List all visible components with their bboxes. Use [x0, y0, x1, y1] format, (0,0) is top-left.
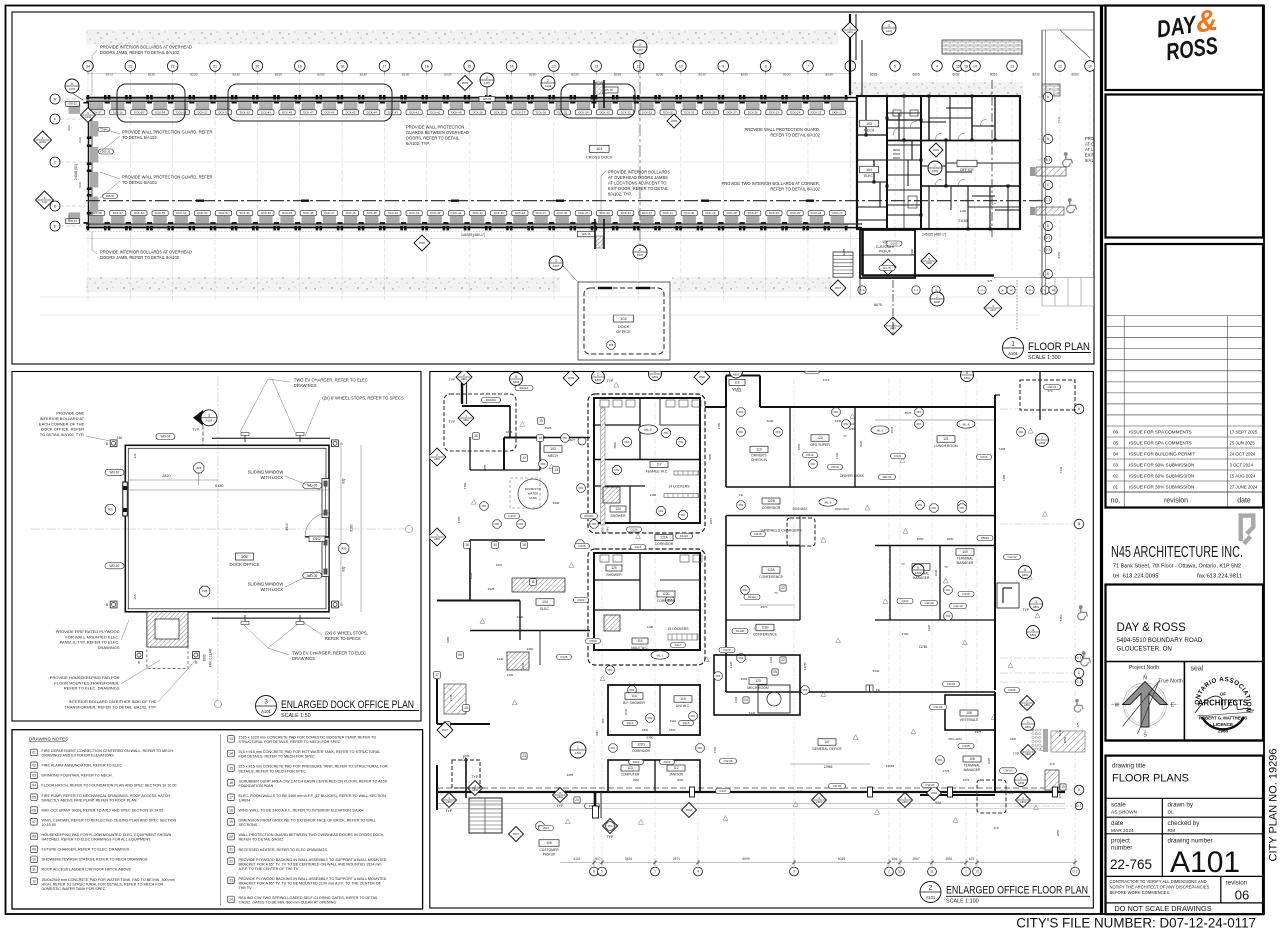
svg-text:PROVIDE PLYWOOD BACKING IN WAL: PROVIDE PLYWOOD BACKING IN WALL ASSEMBLY…	[239, 858, 387, 862]
svg-text:DCK-54: DCK-54	[155, 110, 165, 114]
svg-text:15: 15	[956, 64, 960, 68]
svg-text:DCK-33: DCK-33	[621, 211, 631, 215]
svg-text:DCK-26: DCK-26	[748, 110, 758, 114]
center remaining labels	[590, 520, 598, 528]
svg-text:1: 1	[965, 870, 967, 874]
svg-text:255: 255	[133, 594, 137, 599]
svg-text:SCRUBBER DUMP AREA C/W CATCH B: SCRUBBER DUMP AREA C/W CATCH BASIN CENTE…	[239, 779, 387, 783]
svg-text:3330: 3330	[927, 624, 931, 631]
svg-text:seal: seal	[1191, 666, 1204, 673]
svg-text:04: 04	[32, 784, 36, 788]
svg-text:01: 01	[1113, 484, 1119, 489]
svg-text:111B: 111B	[761, 626, 769, 630]
svg-text:CW-09: CW-09	[925, 601, 934, 605]
svg-text:A211: A211	[886, 29, 893, 33]
svg-text:4230: 4230	[767, 419, 774, 423]
svg-text:DRAWING NOTES: DRAWING NOTES	[29, 736, 68, 741]
svg-text:10 10 00: 10 10 00	[42, 823, 56, 827]
svg-text:113: 113	[627, 766, 632, 770]
svg-text:4750: 4750	[457, 516, 461, 523]
svg-text:WITH LOCK: WITH LOCK	[260, 587, 283, 592]
svg-text:DCK-57: DCK-57	[113, 211, 123, 215]
svg-text:07: 07	[32, 820, 36, 824]
dock door DCK-44 bottom	[383, 226, 386, 230]
svg-text:DCK-41: DCK-41	[430, 110, 440, 114]
svg-text:ELEC.: ELEC.	[540, 607, 550, 611]
svg-text:11: 11	[930, 870, 934, 874]
svg-text:W07: W07	[442, 728, 448, 732]
svg-text:12: 12	[522, 456, 526, 460]
svg-text:TYP.: TYP.	[606, 835, 613, 839]
svg-text:DCK-48: DCK-48	[303, 211, 313, 215]
svg-text:3695: 3695	[987, 757, 991, 764]
west entry dashed zone	[444, 394, 516, 451]
svg-text:112: 112	[673, 766, 678, 770]
svg-text:1100: 1100	[650, 493, 657, 497]
svg-text:P01: P01	[625, 440, 630, 444]
svg-text:120: 120	[817, 436, 823, 440]
svg-text:P05: P05	[196, 466, 202, 470]
svg-text:13: 13	[1010, 64, 1014, 68]
svg-text:DOORS, REFER TO DETAIL: DOORS, REFER TO DETAIL	[406, 136, 460, 141]
svg-text:8230: 8230	[529, 73, 537, 77]
svg-text:SLIDING WINDOW: SLIDING WINDOW	[248, 470, 284, 475]
svg-text:5440: 5440	[873, 669, 880, 673]
svg-text:09: 09	[458, 653, 462, 657]
east service marks	[1045, 770, 1059, 790]
svg-text:1135: 1135	[507, 673, 514, 677]
svg-text:3920: 3920	[859, 440, 863, 447]
svg-text:8230: 8230	[444, 73, 452, 77]
dock door DCK-27	[722, 95, 725, 99]
svg-text:WD-01: WD-01	[883, 475, 892, 479]
svg-text:8230: 8230	[360, 73, 368, 77]
svg-text:D101A: D101A	[520, 386, 529, 390]
svg-text:180: 180	[117, 436, 123, 440]
svg-text:CW-05: CW-05	[833, 784, 842, 788]
svg-text:3: 3	[264, 699, 268, 706]
svg-text:8230: 8230	[614, 73, 622, 77]
svg-text:PROVIDE WALL PROTECTION GUARD,: PROVIDE WALL PROTECTION GUARD, REFER	[122, 175, 212, 180]
svg-text:8675: 8675	[874, 303, 882, 307]
svg-text:4255: 4255	[567, 773, 574, 777]
panel 1 border	[12, 12, 1094, 364]
svg-text:1720: 1720	[717, 422, 721, 429]
svg-text:D.1: D.1	[1076, 804, 1081, 808]
svg-text:8230: 8230	[825, 73, 833, 77]
svg-text:1: 1	[654, 870, 656, 874]
drawing note 20	[228, 833, 235, 840]
svg-text:TO DETAIL 6/A102: TO DETAIL 6/A102	[122, 135, 157, 140]
svg-text:FLOOR PLANS: FLOOR PLANS	[1112, 773, 1189, 785]
svg-text:4101: 4101	[573, 857, 581, 861]
svg-text:A801: A801	[1025, 725, 1032, 729]
svg-text:P02: P02	[615, 468, 620, 472]
svg-text:P02: P02	[608, 668, 613, 672]
svg-text:BRACKET FOR A 65" TV. TV TO BE: BRACKET FOR A 65" TV. TV TO BE MOUNTED 2…	[239, 882, 382, 886]
svg-text:3630: 3630	[934, 569, 938, 576]
svg-text:ML-2: ML-2	[644, 428, 651, 432]
svg-text:P01: P01	[659, 509, 664, 513]
svg-text:19: 19	[1061, 785, 1065, 789]
svg-text:P01: P01	[917, 422, 922, 426]
svg-text:1: 1	[1027, 720, 1029, 724]
svg-text:P04: P04	[519, 522, 524, 526]
svg-text:DCK-42: DCK-42	[409, 110, 419, 114]
svg-text:D.2: D.2	[1073, 870, 1078, 874]
svg-text:TYP.: TYP.	[471, 775, 478, 779]
svg-text:PROVIDE WALL PROTECTION: PROVIDE WALL PROTECTION	[406, 125, 464, 130]
svg-text:1/A604: 1/A604	[239, 798, 251, 802]
svg-text:22: 22	[171, 64, 175, 68]
svg-text:119: 119	[756, 448, 761, 452]
svg-text:P06: P06	[716, 674, 721, 678]
svg-text:1967: 1967	[912, 857, 920, 861]
svg-text:16: 16	[964, 64, 968, 68]
twin wall stubs above	[849, 14, 851, 95]
panel 2 border	[430, 372, 1094, 909]
svg-text:date: date	[1237, 498, 1251, 505]
svg-text:MALE W.C.: MALE W.C.	[631, 646, 649, 650]
dock door DCK-40 bottom	[468, 226, 471, 230]
svg-text:D106: D106	[1009, 688, 1016, 692]
svg-text:8353: 8353	[1059, 614, 1063, 621]
svg-text:DAY & ROSS: DAY & ROSS	[1117, 622, 1187, 634]
svg-text:ELEC. ROOM WALLS TO BE 3400 mm: ELEC. ROOM WALLS TO BE 3400 mm A.F.F. (1…	[239, 794, 387, 798]
dock door DCK-34	[573, 95, 576, 99]
svg-text:TERMINAL: TERMINAL	[964, 764, 981, 768]
svg-text:A803: A803	[1039, 441, 1046, 445]
svg-text:drawing title: drawing title	[1112, 763, 1146, 770]
svg-text:W05: W05	[933, 148, 939, 152]
svg-text:W02: W02	[686, 808, 692, 812]
svg-text:D123: D123	[724, 648, 731, 652]
svg-text:CW-01: CW-01	[1048, 385, 1057, 389]
svg-text:9: 9	[722, 64, 724, 68]
svg-text:3145: 3145	[449, 694, 453, 701]
dock door DCK-23 bottom	[827, 226, 830, 230]
svg-text:WITH LOCK: WITH LOCK	[260, 475, 283, 480]
svg-text:22: 22	[781, 658, 785, 662]
svg-text:A802: A802	[461, 378, 467, 381]
dock office pad	[578, 282, 670, 360]
svg-text:DCK-45: DCK-45	[346, 110, 356, 114]
svg-text:470: 470	[1049, 762, 1054, 766]
svg-text:17: 17	[382, 64, 386, 68]
project box	[1106, 585, 1264, 741]
svg-text:fax 613.224.9811: fax 613.224.9811	[1197, 573, 1242, 579]
svg-text:A801: A801	[1024, 704, 1030, 707]
svg-text:CW-10: CW-10	[954, 604, 963, 608]
svg-text:P01: P01	[664, 431, 669, 435]
svg-text:scale: scale	[1111, 802, 1126, 809]
svg-text:GENERAL OFFICE: GENERAL OFFICE	[812, 747, 842, 751]
dock door DCK-55 bottom	[150, 226, 153, 230]
svg-text:04: 04	[1113, 451, 1119, 456]
svg-text:RAILING C/W TWO SPRING-LOADED: RAILING C/W TWO SPRING-LOADED SELF-CLOSI…	[239, 896, 379, 900]
svg-text:8353: 8353	[1057, 251, 1061, 258]
svg-text:DCK-25: DCK-25	[769, 110, 779, 114]
svg-text:revision: revision	[1164, 498, 1188, 505]
svg-text:D05-10: D05-10	[603, 88, 613, 92]
svg-text:2571: 2571	[673, 857, 681, 861]
svg-text:P01: P01	[960, 506, 965, 510]
svg-text:122A: 122A	[660, 536, 668, 540]
svg-text:5490: 5490	[517, 615, 524, 619]
section cut line left	[486, 82, 488, 97]
svg-text:ROBERT G. MATTHEWS: ROBERT G. MATTHEWS	[1199, 716, 1248, 721]
domestic water tank	[518, 479, 548, 509]
svg-text:DCK-39: DCK-39	[473, 110, 483, 114]
svg-text:DCK-48: DCK-48	[282, 110, 292, 114]
svg-text:3050: 3050	[917, 537, 924, 541]
drawing note 14	[228, 750, 235, 757]
extra markers top wall	[541, 76, 555, 90]
svg-text:3850: 3850	[1056, 829, 1060, 836]
svg-text:24 OCT 2024: 24 OCT 2024	[1230, 451, 1256, 456]
svg-text:71 Bank Street, 7th Floor - Ot: 71 Bank Street, 7th Floor - Ottawa, Onta…	[1113, 563, 1241, 569]
dock door DCK-54	[150, 95, 153, 99]
top dock wall	[86, 98, 848, 101]
svg-text:10: 10	[493, 543, 497, 547]
right curb lines	[1041, 30, 1043, 295]
svg-text:DOORS JAMB, REFER TO DETAIL 8/: DOORS JAMB, REFER TO DETAIL 8/A102	[100, 255, 180, 260]
svg-text:DCK-50: DCK-50	[240, 110, 250, 114]
room label	[235, 553, 253, 560]
svg-text:B: B	[138, 661, 140, 665]
svg-text:5440: 5440	[749, 711, 756, 715]
svg-text:DCK-32: DCK-32	[642, 211, 652, 215]
callout loop far-left	[117, 84, 185, 122]
svg-text:675: 675	[969, 857, 975, 861]
svg-text:A802: A802	[1020, 801, 1026, 804]
svg-text:DIRECTLY ABOVE FIRE PUMP, REFE: DIRECTLY ABOVE FIRE PUMP, REFER TO ROOF …	[42, 798, 137, 802]
labels around room	[156, 434, 175, 440]
svg-text:TWO EV CHARGER, REFER TO ELEC: TWO EV CHARGER, REFER TO ELEC	[292, 651, 366, 656]
svg-text:4135: 4135	[729, 661, 733, 668]
svg-text:A802: A802	[902, 801, 908, 804]
svg-text:OFFICE: OFFICE	[960, 168, 974, 172]
svg-text:D111B: D111B	[736, 629, 744, 633]
svg-text:HATCHED. REFER TO ELEC DRAWING: HATCHED. REFER TO ELEC DRAWINGS FOR ALL …	[42, 838, 152, 842]
dock door DCK-38 bottom	[510, 226, 513, 230]
svg-text:14: 14	[973, 64, 977, 68]
svg-text:DCK-25: DCK-25	[790, 211, 800, 215]
svg-text:B: B	[1047, 137, 1049, 141]
svg-text:DCK-45: DCK-45	[367, 211, 377, 215]
svg-text:3050: 3050	[947, 537, 954, 541]
svg-text:DOCK OFFICE, REFER: DOCK OFFICE, REFER	[41, 427, 84, 432]
svg-text:SCALE 1:300: SCALE 1:300	[1028, 355, 1061, 361]
dock door DCK-45 bottom	[362, 226, 365, 230]
tactile pavers	[1032, 729, 1034, 731]
drawing note 18	[228, 807, 235, 814]
svg-text:03: 03	[1113, 462, 1119, 467]
svg-text:12: 12	[32, 879, 36, 883]
svg-text:3 OCT 2024: 3 OCT 2024	[1230, 462, 1254, 467]
svg-text:2790: 2790	[902, 632, 909, 636]
svg-text:10: 10	[1088, 64, 1092, 68]
west end wall	[88, 101, 90, 227]
svg-text:REFER TO DETAIL 8/A102: REFER TO DETAIL 8/A102	[770, 187, 820, 192]
dock door DCK-56	[108, 95, 111, 99]
svg-text:03: 03	[32, 774, 36, 778]
dock door DCK-51	[214, 95, 217, 99]
svg-text:3430: 3430	[835, 419, 842, 423]
elec 104	[536, 599, 554, 606]
svg-text:A302: A302	[1018, 781, 1025, 785]
north wall office	[705, 406, 726, 408]
svg-text:1013: 1013	[506, 430, 513, 434]
centerlines panel3	[217, 376, 219, 700]
dock door DCK-37 bottom	[531, 226, 534, 230]
svg-text:06: 06	[32, 808, 36, 812]
apron stipple bottom left	[86, 277, 560, 292]
FE marks	[866, 685, 873, 692]
svg-text:2360: 2360	[527, 647, 534, 651]
svg-text:VINYL CURTAIN, REFER TO REFLEC: VINYL CURTAIN, REFER TO REFLECTED CEILIN…	[42, 818, 177, 822]
svg-text:2: 2	[888, 870, 890, 874]
svg-text:12: 12	[594, 64, 598, 68]
upper core labels	[639, 425, 658, 434]
exit stair bottom	[594, 219, 596, 249]
svg-text:DCK-26: DCK-26	[769, 211, 779, 215]
svg-text:E: E	[1047, 272, 1049, 276]
svg-text:P02: P02	[648, 716, 653, 720]
svg-text:PROVIDE TWO INTERIOR BOLLARDS: PROVIDE TWO INTERIOR BOLLARDS AT CORNER,	[722, 181, 821, 186]
svg-text:21160: 21160	[958, 219, 967, 223]
svg-text:25 JUN 2025: 25 JUN 2025	[1230, 440, 1256, 445]
svg-text:121: 121	[943, 437, 949, 441]
svg-text:DCK-42: DCK-42	[430, 211, 440, 215]
svg-text:DCK-30: DCK-30	[684, 211, 694, 215]
panel 3 title	[256, 696, 277, 717]
b-f shower 114	[608, 685, 700, 735]
svg-text:W05: W05	[568, 376, 574, 380]
svg-text:A101: A101	[1170, 846, 1240, 879]
office wing jambs	[886, 117, 889, 120]
svg-text:PROVIDE INTERIOR BOLLARDS AT O: PROVIDE INTERIOR BOLLARDS AT OVERHEAD	[100, 45, 192, 50]
svg-text:W05: W05	[462, 81, 468, 85]
svg-text:06: 06	[1235, 888, 1249, 903]
svg-text:6: 6	[71, 82, 73, 86]
svg-text:122B: 122B	[767, 499, 774, 503]
svg-text:D519: D519	[807, 453, 814, 457]
svg-text:P04: P04	[541, 462, 546, 466]
svg-text:19: 19	[229, 820, 233, 824]
svg-text:2: 2	[639, 43, 641, 47]
svg-text:D05-59: D05-59	[106, 194, 115, 198]
dock door DCK-26	[743, 95, 746, 99]
svg-text:LICENCE: LICENCE	[1213, 722, 1233, 727]
svg-text:4: 4	[1032, 628, 1034, 632]
svg-text:DCK-41: DCK-41	[451, 211, 461, 215]
svg-text:DIMENSION FROM GRIDLINE TO EXT: DIMENSION FROM GRIDLINE TO EXTERIOR FACE…	[239, 819, 377, 823]
svg-text:OF: OF	[1220, 692, 1226, 697]
svg-text:project: project	[1111, 838, 1130, 845]
svg-text:W05: W05	[419, 241, 425, 245]
svg-text:18: 18	[522, 543, 526, 547]
svg-text:116: 116	[637, 639, 642, 643]
svg-text:8230: 8230	[1032, 73, 1040, 77]
svg-text:2085: 2085	[483, 464, 487, 471]
svg-text:DRINKING FOUNTAIN, REFER TO ME: DRINKING FOUNTAIN, REFER TO MECH.	[42, 774, 113, 778]
svg-text:CITY PLAN NO. 19296: CITY PLAN NO. 19296	[1268, 749, 1280, 862]
svg-text:05: 05	[773, 670, 777, 674]
svg-text:1: 1	[577, 746, 579, 750]
cross dock label	[590, 145, 610, 152]
drawing note 09	[31, 846, 38, 853]
svg-text:4.1: 4.1	[914, 288, 919, 292]
svg-text:DO NOT SCALE DRAWINGS: DO NOT SCALE DRAWINGS	[1114, 904, 1211, 913]
svg-text:FOR DETAILS, REFER TO MECH FOR: FOR DETAILS, REFER TO MECH FOR SPEC	[239, 755, 316, 759]
svg-text:no.: no.	[1111, 498, 1121, 505]
svg-text:TRANSFORMER, REFER TO DETAIL 8: TRANSFORMER, REFER TO DETAIL 8/A102, TYP…	[65, 704, 157, 709]
svg-text:8230: 8230	[190, 73, 198, 77]
section cut line mid	[639, 40, 641, 258]
svg-text:AT LOCATIONS ADJACENT TO: AT LOCATIONS ADJACENT TO	[608, 181, 666, 186]
drawing note 13	[228, 736, 235, 743]
dock door DCK-52	[192, 95, 195, 99]
dock door DCK-50 bottom	[256, 226, 259, 230]
vestibule 106	[945, 695, 995, 730]
svg-text:DCK-36: DCK-36	[557, 211, 567, 215]
svg-text:14: 14	[229, 752, 233, 756]
svg-text:(2x) 6' WHEEL STOPS,: (2x) 6' WHEEL STOPS,	[325, 630, 368, 635]
svg-text:PROVIDE INTE: PROVIDE INTE	[1085, 136, 1114, 141]
svg-text:TV: TV	[944, 565, 948, 569]
svg-text:DOORS JAMB, REFER TO DETAIL 8/: DOORS JAMB, REFER TO DETAIL 8/A102	[100, 50, 180, 55]
svg-text:DCK-46: DCK-46	[324, 110, 334, 114]
svg-text:3: 3	[793, 870, 795, 874]
svg-text:FIRE DEPARTMENT CONNECTION CEN: FIRE DEPARTMENT CONNECTION CENTERED ON W…	[42, 749, 175, 753]
svg-text:DCK-24: DCK-24	[811, 211, 821, 215]
svg-text:675: 675	[1076, 722, 1080, 727]
svg-text:DCK-38: DCK-38	[515, 211, 525, 215]
panel2 vertical gridlines	[593, 378, 595, 866]
svg-text:D125: D125	[579, 544, 586, 548]
svg-text:D103: D103	[509, 514, 516, 518]
svg-text:NOTIFY THE ARCHITECT OF ANY DI: NOTIFY THE ARCHITECT OF ANY DISCREPANCIE…	[1110, 884, 1210, 889]
dock door DCK-27 bottom	[743, 226, 746, 230]
terminal manager 108	[963, 756, 981, 762]
office wing stipple top	[850, 82, 1023, 95]
svg-text:PROVIDE INTERIOR BOLLARDS AT O: PROVIDE INTERIOR BOLLARDS AT OVERHEAD	[100, 250, 192, 255]
svg-text:2925: 2925	[488, 587, 495, 591]
svg-text:106: 106	[966, 711, 972, 715]
svg-text:W03: W03	[931, 791, 937, 795]
svg-text:15: 15	[539, 419, 543, 423]
west overhead door top	[69, 103, 81, 114]
svg-text:tel. 613.224.0095: tel. 613.224.0095	[1113, 573, 1159, 579]
dock door DCK-35 bottom	[573, 226, 576, 230]
svg-text:WD-02: WD-02	[110, 564, 120, 568]
svg-text:14785: 14785	[803, 662, 807, 670]
svg-text:34: 34	[86, 64, 90, 68]
dock door DCK-28 bottom	[722, 226, 725, 230]
svg-text:P01: P01	[932, 506, 937, 510]
svg-text:16: 16	[464, 706, 468, 710]
svg-text:LUNCH ROOM: LUNCH ROOM	[934, 444, 957, 448]
dock door DCK-32 bottom	[637, 226, 640, 230]
svg-text:8960: 8960	[910, 248, 914, 255]
svg-text:8230: 8230	[741, 73, 749, 77]
west stub walls top	[461, 372, 463, 405]
drawing note 05	[31, 794, 38, 801]
computer 113 janitor 112	[608, 760, 700, 792]
svg-text:600: 600	[850, 422, 855, 426]
svg-text:FE: FE	[876, 688, 880, 692]
